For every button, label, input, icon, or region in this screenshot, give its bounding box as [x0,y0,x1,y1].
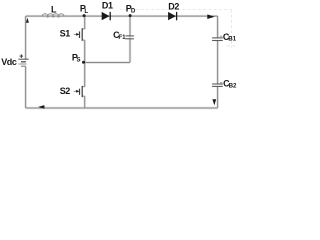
svg-text:S1: S1 [60,28,71,38]
svg-text:+: + [19,53,23,60]
svg-text:D1: D1 [102,1,113,11]
svg-text:B2: B2 [229,83,237,90]
svg-text:B1: B1 [228,36,236,43]
svg-text:Vdc: Vdc [1,57,17,67]
svg-text:L: L [51,5,57,15]
svg-text:S2: S2 [60,86,71,96]
svg-text:F1: F1 [118,34,126,41]
svg-text:D2: D2 [168,1,179,11]
svg-text:D: D [131,7,136,14]
svg-text:S: S [76,57,80,64]
svg-text:L: L [84,8,88,15]
